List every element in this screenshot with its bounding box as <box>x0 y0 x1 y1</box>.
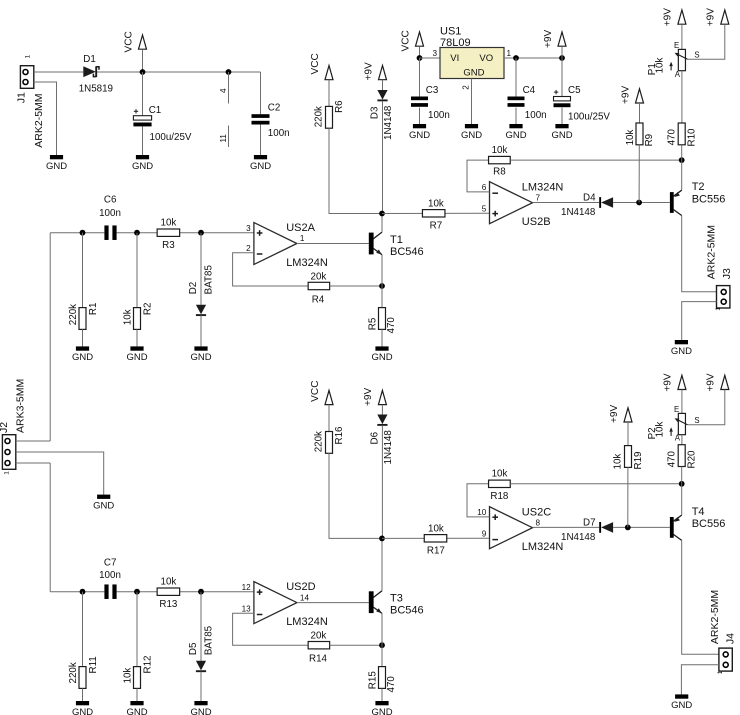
svg-text:BC556: BC556 <box>692 518 726 530</box>
svg-text:1N4148: 1N4148 <box>561 532 596 543</box>
svg-text:S: S <box>694 416 699 425</box>
svg-text:20k: 20k <box>311 631 327 642</box>
svg-text:LM324N: LM324N <box>522 181 564 193</box>
svg-text:+9V: +9V <box>543 29 554 48</box>
svg-text:R11: R11 <box>88 656 99 673</box>
svg-text:10k: 10k <box>625 130 636 146</box>
svg-text:J4: J4 <box>725 633 737 644</box>
svg-text:D6: D6 <box>369 431 380 444</box>
svg-text:GND: GND <box>190 352 211 363</box>
svg-text:13: 13 <box>242 604 252 613</box>
svg-text:VO: VO <box>479 53 493 64</box>
svg-text:R3: R3 <box>162 240 175 251</box>
svg-text:GND: GND <box>671 346 692 357</box>
svg-text:100n: 100n <box>428 110 450 121</box>
svg-text:78L09: 78L09 <box>440 37 471 49</box>
svg-text:+9V: +9V <box>363 62 374 81</box>
svg-text:GND: GND <box>409 130 430 141</box>
svg-text:10k: 10k <box>161 576 177 587</box>
svg-text:ARK3-5MM: ARK3-5MM <box>15 379 27 433</box>
svg-text:BAT85: BAT85 <box>204 625 215 655</box>
svg-text:1: 1 <box>24 55 31 59</box>
svg-text:BC556: BC556 <box>692 193 726 205</box>
svg-text:C3: C3 <box>426 85 439 96</box>
svg-text:E: E <box>674 405 679 414</box>
svg-text:VI: VI <box>450 53 459 64</box>
svg-text:E: E <box>674 41 679 50</box>
svg-text:D4: D4 <box>583 192 596 203</box>
svg-text:US2B: US2B <box>522 216 551 228</box>
svg-text:R17: R17 <box>427 546 445 557</box>
svg-text:11: 11 <box>219 134 228 143</box>
svg-text:T1: T1 <box>390 234 403 246</box>
svg-text:US2C: US2C <box>522 506 551 518</box>
svg-text:T4: T4 <box>692 506 705 518</box>
svg-text:R12: R12 <box>142 656 153 674</box>
svg-text:BC546: BC546 <box>390 605 424 617</box>
svg-text:T2: T2 <box>692 181 705 193</box>
svg-text:2: 2 <box>246 244 251 253</box>
svg-text:10k: 10k <box>428 198 444 209</box>
svg-text:4: 4 <box>219 88 228 93</box>
svg-text:S: S <box>694 51 699 60</box>
svg-text:R19: R19 <box>633 452 644 470</box>
svg-text:+9V: +9V <box>663 373 674 392</box>
svg-text:GND: GND <box>551 130 572 141</box>
svg-text:1N5819: 1N5819 <box>79 84 113 95</box>
svg-text:GND: GND <box>190 707 211 715</box>
svg-text:+9V: +9V <box>663 8 674 27</box>
svg-text:100u/25V: 100u/25V <box>568 112 610 123</box>
svg-text:R2: R2 <box>142 303 153 316</box>
svg-text:220k: 220k <box>68 304 79 325</box>
svg-text:10: 10 <box>477 508 487 517</box>
svg-text:GND: GND <box>461 130 482 141</box>
svg-text:+9V: +9V <box>620 85 631 104</box>
svg-text:C2: C2 <box>268 102 281 113</box>
svg-text:7: 7 <box>536 193 541 202</box>
svg-text:GND: GND <box>671 700 692 711</box>
svg-text:VCC: VCC <box>310 53 321 74</box>
svg-text:VCC: VCC <box>310 380 321 401</box>
svg-text:GND: GND <box>250 161 271 172</box>
svg-text:GND: GND <box>72 352 93 363</box>
svg-text:GND: GND <box>126 352 147 363</box>
svg-text:GND: GND <box>505 130 526 141</box>
svg-text:R4: R4 <box>312 294 325 305</box>
svg-text:9: 9 <box>482 530 487 539</box>
svg-text:GND: GND <box>371 352 392 363</box>
svg-text:6: 6 <box>482 183 487 192</box>
svg-text:BC546: BC546 <box>390 246 424 258</box>
svg-text:R15: R15 <box>367 671 378 690</box>
svg-text:R13: R13 <box>159 599 178 610</box>
svg-text:ARK2-5MM: ARK2-5MM <box>33 93 45 147</box>
svg-text:5: 5 <box>482 205 487 214</box>
svg-text:A: A <box>675 433 681 442</box>
svg-text:470: 470 <box>386 676 397 693</box>
svg-text:10k: 10k <box>655 422 666 438</box>
svg-text:+9V: +9V <box>609 404 620 423</box>
svg-text:LM324N: LM324N <box>286 616 328 628</box>
svg-text:C5: C5 <box>568 85 581 96</box>
svg-text:R16: R16 <box>334 426 345 445</box>
svg-text:BAT85: BAT85 <box>204 265 215 295</box>
svg-text:1N4148: 1N4148 <box>383 105 394 140</box>
svg-text:3: 3 <box>432 49 437 58</box>
svg-text:+9V: +9V <box>706 373 717 392</box>
svg-text:C1: C1 <box>149 105 162 116</box>
svg-text:VCC: VCC <box>123 31 134 52</box>
svg-text:3: 3 <box>246 224 251 233</box>
svg-text:1N4148: 1N4148 <box>383 430 394 465</box>
svg-text:100u/25V: 100u/25V <box>150 132 192 143</box>
svg-text:20k: 20k <box>311 272 327 283</box>
svg-text:100n: 100n <box>99 570 121 581</box>
svg-text:LM324N: LM324N <box>522 541 564 553</box>
svg-text:1: 1 <box>300 234 305 243</box>
svg-text:220k: 220k <box>314 106 325 127</box>
svg-text:D3: D3 <box>369 106 380 119</box>
svg-text:100n: 100n <box>268 128 290 139</box>
svg-text:470: 470 <box>667 129 678 146</box>
svg-text:C4: C4 <box>523 85 536 96</box>
svg-text:D7: D7 <box>583 517 596 528</box>
svg-text:J2: J2 <box>0 422 10 433</box>
svg-text:GND: GND <box>93 500 114 511</box>
svg-text:R1: R1 <box>88 303 99 316</box>
svg-text:10k: 10k <box>492 145 508 156</box>
svg-text:D2: D2 <box>188 282 199 295</box>
svg-text:+9V: +9V <box>363 387 374 406</box>
svg-text:1: 1 <box>3 471 10 475</box>
svg-text:LM324N: LM324N <box>286 257 328 269</box>
svg-text:470: 470 <box>667 451 678 468</box>
svg-text:VCC: VCC <box>400 30 411 51</box>
svg-text:C6: C6 <box>104 194 117 205</box>
svg-text:A: A <box>675 70 681 79</box>
svg-text:R14: R14 <box>309 653 328 664</box>
svg-text:8: 8 <box>536 518 541 527</box>
svg-text:10k: 10k <box>123 668 134 684</box>
svg-text:100n: 100n <box>525 110 547 121</box>
svg-text:2: 2 <box>461 85 470 90</box>
svg-text:R8: R8 <box>493 167 506 178</box>
svg-text:100n: 100n <box>99 208 121 219</box>
svg-text:220k: 220k <box>68 662 79 683</box>
svg-text:R5: R5 <box>367 317 378 330</box>
svg-text:1: 1 <box>715 307 722 311</box>
svg-text:D5: D5 <box>188 642 199 655</box>
svg-text:GND: GND <box>371 707 392 715</box>
svg-text:US2D: US2D <box>286 581 315 593</box>
svg-text:US1: US1 <box>440 26 461 38</box>
svg-text:GND: GND <box>132 161 153 172</box>
svg-text:GND: GND <box>72 707 93 715</box>
svg-text:J3: J3 <box>721 268 733 279</box>
svg-text:220k: 220k <box>314 431 325 452</box>
svg-text:GND: GND <box>46 161 67 172</box>
svg-text:T3: T3 <box>390 593 403 605</box>
svg-text:R20: R20 <box>687 450 698 469</box>
svg-text:10k: 10k <box>492 468 508 479</box>
svg-text:D1: D1 <box>83 54 96 65</box>
svg-text:R9: R9 <box>644 134 655 147</box>
svg-text:GND: GND <box>126 707 147 715</box>
svg-text:J1: J1 <box>16 92 28 103</box>
svg-text:R10: R10 <box>687 128 698 147</box>
svg-text:1N4148: 1N4148 <box>561 207 596 218</box>
svg-text:R7: R7 <box>430 221 443 232</box>
svg-text:1: 1 <box>507 49 512 58</box>
svg-text:10k: 10k <box>655 58 666 74</box>
svg-text:+9V: +9V <box>706 8 717 27</box>
svg-text:C7: C7 <box>104 558 117 569</box>
svg-text:US2A: US2A <box>286 222 315 234</box>
svg-text:12: 12 <box>242 583 252 592</box>
svg-text:GND: GND <box>463 68 484 79</box>
svg-text:10k: 10k <box>123 309 134 325</box>
svg-text:R6: R6 <box>334 100 345 113</box>
svg-text:470: 470 <box>386 317 397 334</box>
svg-text:14: 14 <box>300 593 310 602</box>
svg-text:10k: 10k <box>428 523 444 534</box>
svg-text:R18: R18 <box>490 491 509 502</box>
svg-text:1: 1 <box>717 670 724 674</box>
svg-text:10k: 10k <box>612 454 623 470</box>
svg-text:ARK2-5MM: ARK2-5MM <box>705 225 717 279</box>
svg-text:10k: 10k <box>161 217 177 228</box>
svg-text:ARK2-5MM: ARK2-5MM <box>709 590 721 644</box>
